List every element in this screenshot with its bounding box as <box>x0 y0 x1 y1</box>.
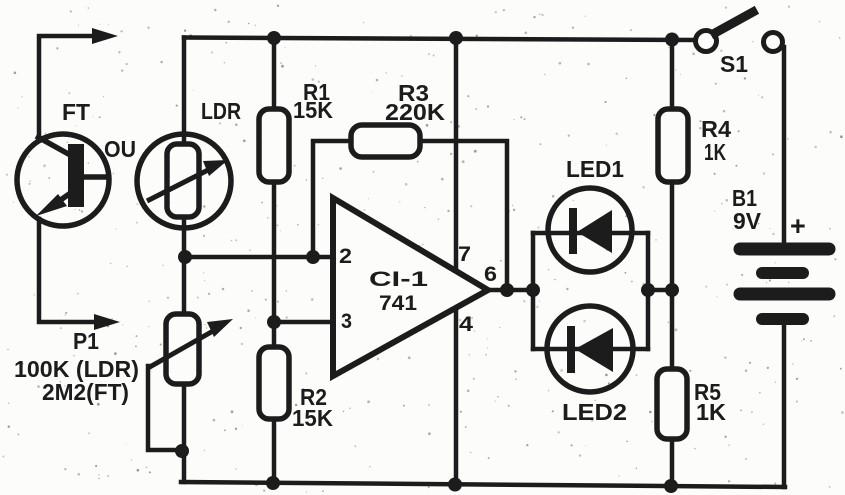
resistor R4 <box>658 109 688 182</box>
switch S1 lever <box>715 12 753 33</box>
potentiometer P1 wiper arrow <box>148 331 213 368</box>
LDR arrow <box>147 169 210 201</box>
wire FT top lead with arrow <box>39 36 94 140</box>
battery B1 plate long top <box>740 243 829 256</box>
node LED bracket / middle <box>641 283 655 297</box>
svg-text:FT: FT <box>62 99 90 125</box>
LED2 cathode bar <box>567 326 575 373</box>
svg-text:220K: 220K <box>385 99 445 125</box>
battery B1 plate short bottom <box>762 313 803 325</box>
arrowhead FT bottom <box>94 314 120 330</box>
switch S1 left contact <box>696 31 717 52</box>
svg-text:S1: S1 <box>720 51 748 77</box>
resistor R5 <box>657 369 687 439</box>
resistor R2 <box>259 347 289 419</box>
transistor FT base lead <box>84 174 109 180</box>
svg-text:2M2(FT): 2M2(FT) <box>42 379 129 405</box>
potentiometer P1 body <box>166 314 199 384</box>
node bottom rail / R5 <box>664 479 678 493</box>
arrowhead FT top <box>92 28 118 44</box>
node output / LED bracket <box>526 283 540 297</box>
transistor FT base bar <box>68 144 84 207</box>
wire LED left bracket <box>531 233 536 349</box>
svg-text:7: 7 <box>458 243 471 266</box>
wire P1 wiper bypass <box>148 366 182 450</box>
svg-text:6: 6 <box>484 263 497 286</box>
transistor FT circle <box>17 134 109 226</box>
transistor FT emitter arrowhead <box>36 194 67 216</box>
transistor FT emitter lead <box>52 192 72 206</box>
svg-text:4: 4 <box>459 313 473 336</box>
svg-text:LDR: LDR <box>201 98 241 124</box>
svg-text:15K: 15K <box>293 97 333 123</box>
node feedback / output <box>500 283 514 297</box>
node bottom rail / R2 <box>266 476 280 490</box>
node middle / R4-R5 <box>665 283 679 297</box>
node top rail / R4 <box>665 33 679 47</box>
node bottom rail / pin4 <box>448 478 462 492</box>
battery B1 plate long <box>740 288 829 301</box>
wire pin 2 input <box>185 255 334 260</box>
svg-text:1K: 1K <box>704 139 726 165</box>
wire LED bracket to R4/R5 node <box>648 288 672 293</box>
wire R4-R5 chain <box>670 39 675 486</box>
wire R3 feedback left <box>313 141 352 257</box>
LDR body <box>167 144 199 217</box>
node top rail / R1 <box>267 31 281 45</box>
node P1 bypass <box>175 444 189 458</box>
LED2 triangle <box>575 328 613 372</box>
svg-text:2: 2 <box>339 245 352 268</box>
node R1-R2 / pin3 <box>267 315 281 329</box>
wire LED right bracket <box>646 233 651 349</box>
wire S1 right terminal to battery <box>782 47 787 242</box>
svg-text:9V: 9V <box>733 208 762 234</box>
op-amp CI-1 triangle <box>333 198 488 376</box>
wire FT bottom lead with arrow <box>39 219 94 322</box>
node LDR / pin2 <box>178 250 192 264</box>
wire R1-R2 chain <box>272 38 277 483</box>
svg-text:LED2: LED2 <box>562 399 627 425</box>
wire LED2 horizontal <box>533 347 648 352</box>
node feedback / pin2 <box>306 250 320 264</box>
svg-text:LED1: LED1 <box>566 156 624 182</box>
LED1 triangle <box>577 210 612 253</box>
transistor FT collector lead <box>36 136 72 156</box>
svg-text:+: + <box>790 211 806 241</box>
switch S1 right contact <box>764 33 783 52</box>
svg-text:P1: P1 <box>73 328 99 354</box>
wire R3 feedback right to output <box>419 141 507 290</box>
wire top rail <box>184 38 696 41</box>
svg-text:3: 3 <box>341 310 352 333</box>
LED2 circle <box>547 306 633 392</box>
wire battery minus to bottom rail <box>782 325 787 487</box>
wire pin 4 supply <box>454 308 459 485</box>
LDR circle <box>137 134 231 228</box>
svg-text:OU: OU <box>104 136 136 162</box>
battery B1 plate short <box>762 267 803 279</box>
wire bottom rail <box>181 482 785 487</box>
wire pin 7 supply <box>454 39 459 270</box>
LED1 cathode bar <box>569 208 577 254</box>
node top rail / pin7 <box>449 31 463 45</box>
wire pin 3 input <box>274 320 334 325</box>
resistor R3 <box>351 125 420 157</box>
svg-text:CI-1: CI-1 <box>369 268 428 291</box>
wire LDR branch (rail to P1 to bottom rail) <box>182 38 187 483</box>
svg-text:741: 741 <box>379 292 417 315</box>
svg-text:15K: 15K <box>292 405 333 431</box>
LED1 circle <box>548 188 632 272</box>
svg-text:1K: 1K <box>696 399 726 425</box>
resistor R1 <box>259 109 289 182</box>
wire LED1 horizontal <box>533 231 648 236</box>
wire output pin 6 <box>488 288 533 293</box>
